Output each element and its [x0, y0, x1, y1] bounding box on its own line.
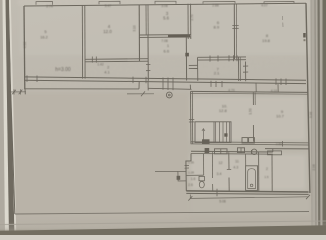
connector vertical to unit bottom wall	[189, 85, 191, 90]
wall right of bathtub	[258, 152, 260, 191]
window top wall 2	[99, 1, 120, 4]
toilet room right wall	[211, 152, 213, 178]
bathtub inner	[248, 169, 256, 189]
bottom photo edge shadow	[0, 222, 326, 236]
window ticks on bottom wall left end	[26, 75, 28, 82]
room1 left wall extension down	[147, 81, 149, 91]
corridor 2 top wall (double)	[85, 58, 148, 61]
bathroom block top wall (double)	[191, 150, 273, 153]
porch / terrace edge line	[25, 88, 139, 90]
door tick room12|11	[227, 169, 231, 171]
lighter wash upper area	[20, 0, 310, 55]
right part top wall (higher)	[265, 148, 309, 150]
upper unit: bottom outer wall (double)	[24, 77, 306, 80]
tick marks on wall 6|8	[232, 25, 238, 27]
terrace divider vertical 2	[277, 84, 279, 92]
bathroom block left wall with protrusion	[186, 154, 191, 191]
porch circle (column symbol)	[166, 92, 172, 98]
right outer wall	[306, 3, 310, 193]
vent box pair	[215, 149, 228, 154]
slightly darker lower-left empty yard area	[10, 92, 190, 218]
rooms 10/9 bottom wall (double)	[191, 142, 309, 143]
window sill box below step wall	[268, 151, 282, 155]
wall room6|room8 (double)	[233, 4, 235, 59]
left edge: bright paper rim	[3, 0, 10, 235]
stub wall room1|room7	[189, 64, 198, 66]
wall room4|room3	[138, 5, 140, 62]
room 3 bottom wall / room 1 top wall (double)	[139, 34, 190, 36]
bathtub outer	[246, 166, 258, 191]
stair ticks below room 1 (porch)	[162, 78, 164, 90]
external stub box	[178, 171, 186, 181]
window ticks bottom wall mid	[132, 77, 134, 84]
faint radiator marks room 8	[282, 16, 284, 20]
dimension line below bottom block	[190, 197, 308, 199]
fixture box pair (kitchen)	[242, 138, 248, 143]
window right wall room 8	[303, 33, 306, 38]
door ticks room 7 top wall	[209, 56, 211, 62]
dimension tick line below porch circle	[127, 93, 154, 95]
stair block lower unit	[195, 122, 231, 143]
porch steps ticks below wall (x 211,216,222)	[210, 81, 212, 87]
dark blob on room1 right wall	[185, 53, 189, 57]
solid dark segment of that wall	[168, 35, 190, 38]
left edge: dark crease band	[6, 0, 15, 235]
door ticks corridor 2	[91, 57, 93, 63]
sink circle above tub	[252, 149, 257, 154]
window top wall 3 (room 3)	[155, 1, 176, 4]
toilet fixture	[199, 176, 204, 180]
vent box 1 on bathroom top wall	[205, 148, 210, 153]
porch corner up	[138, 81, 140, 89]
darker right margin column	[312, 0, 326, 235]
narrow room right wall	[271, 154, 273, 191]
wall room5|room4 (double)	[81, 5, 83, 78]
ticks on shaft wall	[243, 65, 248, 67]
stub door dark tick	[177, 176, 181, 180]
big outline left edge	[11, 94, 15, 215]
room 7 right wall	[238, 57, 240, 81]
lighter interior: bathroom block	[190, 154, 306, 190]
shaft wall right of room4 wall	[145, 5, 147, 36]
left edge: inner bright line	[9, 0, 16, 235]
terrace divider vertical 1	[255, 83, 257, 93]
porch line right part	[148, 88, 191, 89]
wall room12|room11	[228, 152, 230, 169]
wall room3|room6 (double)	[187, 4, 189, 39]
shaft wall right of room 7	[245, 62, 247, 82]
fixture dark box on bottom wall left	[202, 139, 210, 144]
toilet room shelf wall	[186, 174, 204, 176]
door ticks room1 left wall	[146, 63, 150, 65]
room 1 left wall	[147, 35, 149, 81]
window tick lower left wall	[189, 118, 194, 120]
left photo edge: outer grey	[0, 0, 5, 235]
right paper fold lines	[311, 0, 312, 235]
tub drain circle	[250, 184, 253, 187]
door ticks toilet left wall	[185, 164, 190, 166]
tick crossing bottom wall	[216, 189, 218, 196]
room 7 top wall (double, corridor)	[198, 56, 247, 58]
dark square in stair block	[224, 133, 227, 136]
window top wall 1	[36, 1, 53, 4]
paper bottom edge fold line	[0, 221, 326, 225]
window top wall 5 (room 8)	[264, 2, 294, 4]
upper unit: left outer wall	[23, 6, 26, 89]
wall room10|room9 lower segment	[252, 125, 254, 142]
fence line going left	[155, 171, 178, 173]
window top wall 4 (room 6)	[203, 2, 235, 4]
upper unit: top outer wall	[24, 3, 306, 6]
porch left corner vertical	[24, 89, 26, 95]
bright strip above top wall	[18, 0, 310, 5]
bottom block bottom wall (double thick)	[186, 191, 308, 192]
tub niche left wall	[245, 154, 247, 166]
toilet room partition wall	[203, 154, 205, 175]
big outline bottom edge	[15, 212, 309, 215]
dimension tick line left of porch	[9, 91, 26, 93]
wall room10|room9 upper segment	[252, 93, 254, 105]
slightly darker lower-right unit area	[190, 95, 310, 215]
window ticks bottom wall right	[275, 78, 277, 85]
room 1 right wall	[185, 37, 187, 81]
washbasin box	[238, 148, 245, 153]
stair direction arrow	[202, 129, 204, 140]
tick on rooms bottom wall right	[282, 141, 284, 147]
lighter interior: lower unit rooms	[191, 96, 306, 141]
lower unit top wall (double)	[191, 91, 308, 92]
room 7 left wall	[197, 58, 199, 81]
lower unit left wall (double)	[190, 91, 192, 143]
